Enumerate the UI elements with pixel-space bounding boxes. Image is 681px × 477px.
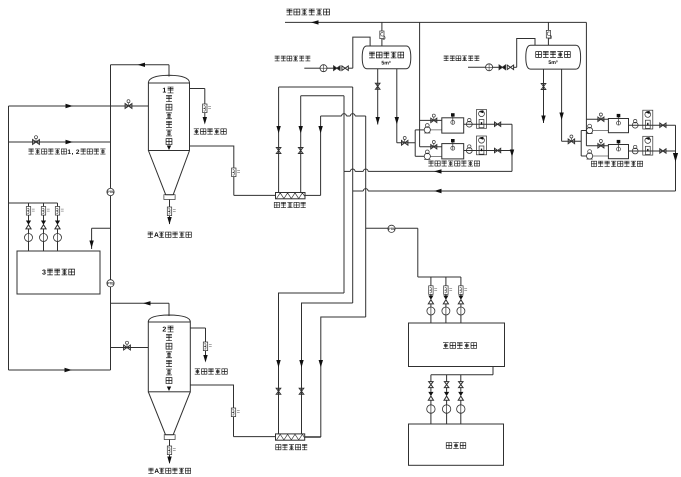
- wire to flushing pump house y142: [9, 141, 111, 143]
- pressure gauge PT1: [107, 188, 114, 195]
- arrow down into pool3: [89, 241, 93, 249]
- wire coag tank drop1: [543, 69, 545, 123]
- check valve unloading middle: [499, 65, 505, 69]
- wire industrial water header: [285, 21, 586, 23]
- wire unit1 water feed vertical: [419, 22, 421, 146]
- wire feed line to tank1 y106: [9, 105, 149, 107]
- tank T2 No.2 coal water purification unit: [148, 315, 190, 440]
- label 2hao meishui jinghua zhuangzhi (vertical): [162, 326, 173, 383]
- pump unloading middle: [486, 64, 493, 71]
- label jiexie yaoche jiekou (left): [275, 56, 311, 61]
- wire header right drop to coagulant unit feed: [585, 22, 587, 145]
- wire tank1 outlet to regulating pool: [190, 89, 212, 119]
- pump drop 2 to pool3: [40, 203, 50, 251]
- arrow down mixer2 A: [276, 360, 280, 368]
- wire mixer2 inlet line: [234, 436, 276, 438]
- arrow down coag drop2: [559, 113, 563, 121]
- svg-text:2: 2: [162, 326, 166, 333]
- wire unit1 pump line A: [415, 129, 442, 131]
- pump unit1 dosing A: [466, 119, 472, 128]
- pressure gauge PT3: [388, 225, 395, 232]
- arrow down chem C: [318, 126, 322, 134]
- wire chem drop B to mixer1: [300, 96, 302, 193]
- arrow left tank2 top: [143, 301, 151, 305]
- stirring box U2-B: [608, 140, 628, 159]
- wire unit1 outlet A: [464, 123, 512, 125]
- label guandao hunheqi 2: [276, 445, 307, 450]
- wire jog C to mixer2 right: [305, 317, 366, 437]
- label zhuningji rongye jiaobanxiang: [428, 161, 479, 166]
- pump drop 3 to regulating pool: [457, 277, 467, 323]
- wire unit1 manifold: [414, 130, 416, 156]
- wire tank2 outlet2 to mixer2: [190, 385, 233, 437]
- valve unit1 out A: [495, 122, 501, 126]
- arrow right y106: [66, 104, 74, 108]
- dosing assembly U1-B: [477, 136, 487, 155]
- stirring box U1-A: [442, 113, 464, 133]
- label zhi A meichang paishuigou (tank1): [148, 232, 192, 239]
- wire unit1 box2 feed: [420, 146, 442, 148]
- pump unit2 dosing B: [632, 145, 638, 154]
- wire tank1 outlet to mixer1: [190, 146, 234, 195]
- dosing assembly U2-A: [643, 110, 653, 129]
- label meishui tiaojiechi (tank1): [194, 129, 227, 134]
- label zhi chongxi shui bengfang 1 2 hao qingshuichi: [28, 149, 105, 156]
- svg-text:A: A: [154, 468, 159, 475]
- wire unit2 outlet A: [629, 124, 676, 126]
- dosing assembly U2-B: [643, 136, 653, 155]
- pump drop 2 to regulating pool: [442, 277, 452, 323]
- wire chem header1 y87: [279, 86, 353, 88]
- valve V2: [33, 136, 40, 145]
- valve unit1 box1 feed: [431, 114, 437, 122]
- tank coagulant-aid storage (zhu ning ji chu guan): [362, 46, 411, 69]
- label guandao hunheqi 1: [274, 202, 305, 207]
- wire chem drop C (mixer1 right riser): [320, 116, 322, 195]
- wire chemical line B y191 from unit2: [353, 189, 676, 191]
- mixer M2 pipe mixer: [276, 434, 305, 440]
- label 5m3 capacity left: [381, 60, 391, 66]
- valve unit1 box2 feed: [431, 141, 437, 149]
- wire tank1 bottom drain: [167, 200, 175, 225]
- wire unit1 pump line B: [415, 155, 442, 157]
- valve V3 tank2 inlet: [124, 341, 131, 350]
- wire mixer1 right stub: [305, 194, 321, 196]
- pump drop 3 to pool3: [54, 203, 64, 251]
- arrow left chem line A: [434, 169, 442, 173]
- wire branch to pool3 inlet: [92, 228, 111, 249]
- wire unit1 merge down to chem line A: [511, 124, 513, 171]
- arrow right y142: [66, 140, 74, 144]
- svg-text:PTB: PTB: [107, 282, 114, 286]
- wire unit1 box1 feed: [420, 119, 442, 121]
- label chenmeichi: [446, 443, 466, 449]
- wire unit2 pump line B: [581, 155, 608, 157]
- wire aid tank drop2 to unit1: [397, 69, 415, 143]
- wire unloading line middle: [468, 39, 535, 68]
- arrow right y370: [65, 368, 73, 372]
- wire unit2 manifold: [580, 131, 582, 157]
- arrow down tank1 outlet1: [203, 117, 207, 125]
- tank T1 No.1 coal water purification unit: [148, 75, 189, 199]
- valve unit1 suction: [402, 137, 408, 146]
- valve V1 on tank1 feed: [125, 100, 132, 109]
- svg-text:3: 3: [42, 269, 46, 277]
- wire chemical line A y171.4 from unit1: [344, 169, 512, 171]
- label meishui tiaojiechi pool: [443, 343, 477, 349]
- valve coag drop1: [541, 84, 546, 90]
- svg-text:1: 1: [162, 87, 166, 94]
- stirring box U2-A: [608, 114, 628, 133]
- label 5m3 capacity right: [548, 60, 558, 66]
- tank pool3 (No.3 clear water pool): [17, 251, 100, 294]
- wire bottom loop y370: [9, 369, 111, 371]
- valve vA: [276, 148, 281, 154]
- stirring box U1-B: [442, 139, 464, 159]
- valve unloading middle: [507, 65, 513, 69]
- label hunningji rongye jiaobanxiang: [591, 161, 642, 166]
- wire unit2 merge down to chem line B: [675, 125, 677, 191]
- wire tank top vent with S element: [380, 22, 385, 46]
- wire pool1 to pool2 transfer: [431, 367, 493, 375]
- wire chem drop A to mixer1: [278, 87, 280, 193]
- svg-text:PTB: PTB: [107, 190, 114, 194]
- flow element on tank1-mixer line: [232, 168, 240, 177]
- arrow left chem line B: [434, 189, 442, 193]
- pump unit1-B: [424, 150, 430, 159]
- label 3 hao qing shui chi: [42, 269, 75, 277]
- wire unit2 outlet B: [629, 150, 676, 152]
- wire unloading line left: [304, 37, 370, 68]
- wire unit2 box1 feed: [586, 118, 608, 120]
- svg-text:5m³: 5m³: [548, 60, 558, 66]
- wire chem header3 y116 with jumps: [321, 114, 366, 116]
- tank regulating pool (coal water): [409, 323, 505, 367]
- svg-text:5m³: 5m³: [381, 60, 391, 66]
- pump drop 1 to pool3: [25, 203, 35, 251]
- wire bus vertical x344: [343, 96, 345, 293]
- wire unit2 pump line A: [581, 130, 608, 132]
- valve unit2 box1 feed: [598, 113, 604, 121]
- valve unit1 out B: [495, 148, 501, 152]
- wire tank1 top return line: [111, 65, 170, 77]
- wire coag tank drop2 to unit2: [562, 69, 582, 141]
- pump drop 2 to settling pool: [442, 375, 450, 424]
- wire main vertical x110.5: [110, 65, 112, 370]
- valve vB: [298, 148, 303, 154]
- arrow down unit1 merge: [510, 150, 514, 158]
- pump drop 1 to settling pool: [427, 375, 435, 424]
- label 1hao meishui jinghua zhuangzhi (vertical): [162, 87, 173, 144]
- pump unit2-B: [587, 150, 593, 159]
- wire unit1 outlet B: [464, 150, 512, 152]
- arrow down tank1 drain: [167, 217, 171, 225]
- wire jog B to mixer2: [302, 303, 353, 434]
- valve unit2 suction: [568, 135, 574, 144]
- valve mixer2 A: [276, 388, 281, 394]
- arrow down aid drop1: [376, 117, 380, 125]
- wire aid tank drop1: [377, 69, 379, 125]
- flow element tank2-mixer2: [231, 408, 239, 417]
- label meishui tiaojiechi (tank2): [195, 369, 228, 374]
- wire mixer1 inlet line: [234, 194, 276, 196]
- pump unit1-A: [424, 124, 430, 133]
- valve mixer2 B: [299, 388, 304, 394]
- svg-text:PTB: PTB: [388, 227, 395, 231]
- wire jog A to mixer2: [279, 293, 345, 434]
- dosing assembly U1-A: [477, 110, 487, 129]
- wire tank2 outlet1 to regulating pool: [190, 328, 211, 357]
- pump unloading left: [320, 65, 327, 72]
- tank settling pool (coal settling): [409, 424, 504, 465]
- wire unit2 box2 feed: [586, 145, 608, 147]
- wire mixed outlet y228.3 to pool: [366, 228, 461, 277]
- pump unit2 dosing A: [632, 120, 638, 129]
- valve unloading left: [342, 66, 348, 70]
- arrow down tank2 drain: [167, 457, 171, 465]
- valve unit2 box2 feed: [598, 140, 604, 148]
- label jiexie yaoche jiekou (middle): [444, 56, 480, 61]
- wire tank2 bottom drain: [167, 440, 175, 464]
- arrow down aid drop2: [395, 117, 399, 125]
- tank coagulant storage (hun ning ji chu guan): [526, 45, 581, 69]
- arrow down tank2 outlet1: [203, 355, 207, 363]
- wire bus vertical x352.7: [352, 87, 354, 303]
- arrow left on tank1 top line: [138, 63, 146, 67]
- arrow flow left on header: [311, 20, 319, 24]
- svg-text:,: ,: [72, 149, 74, 156]
- wire coag tank top vent with S element: [546, 22, 551, 45]
- pump drop 3 to settling pool: [457, 375, 465, 424]
- arrow down chem B: [299, 126, 303, 134]
- arrow down unit2 merge: [673, 153, 678, 162]
- label zhi A meichang paishuigou (tank2): [148, 468, 190, 475]
- arrow down mixer2 C: [319, 360, 323, 368]
- valve unit2 out B: [660, 149, 666, 153]
- pump drop 1 to regulating pool: [427, 277, 437, 323]
- arrow down mixer2 B: [299, 360, 303, 368]
- label hunningji chuguan: [536, 52, 571, 58]
- svg-text:2: 2: [76, 149, 80, 156]
- pressure gauge PT2: [107, 280, 114, 287]
- label zhuningji chuguan: [369, 52, 404, 58]
- valve unit2 out A: [660, 123, 666, 127]
- wire pump suction header y203: [9, 202, 58, 204]
- valve aid drop1: [375, 83, 380, 89]
- wire chem header2 y95.8: [301, 95, 344, 97]
- wire left riser x8.5: [8, 106, 10, 370]
- wire tank2 top return line: [111, 303, 170, 316]
- check valve unloading left: [334, 66, 340, 70]
- wire bus vertical x365.7: [365, 116, 367, 317]
- arrow down coag drop1: [541, 116, 545, 124]
- wire tank2 inlet y347.5: [111, 347, 149, 349]
- pump unit2-A: [587, 124, 593, 133]
- arrow down chem A: [276, 126, 280, 134]
- label jie chang qu gong ye shui: [287, 9, 330, 15]
- mixer M1 pipe mixer: [276, 193, 306, 199]
- pump unit1 dosing B: [466, 145, 472, 154]
- svg-text:A: A: [154, 232, 159, 239]
